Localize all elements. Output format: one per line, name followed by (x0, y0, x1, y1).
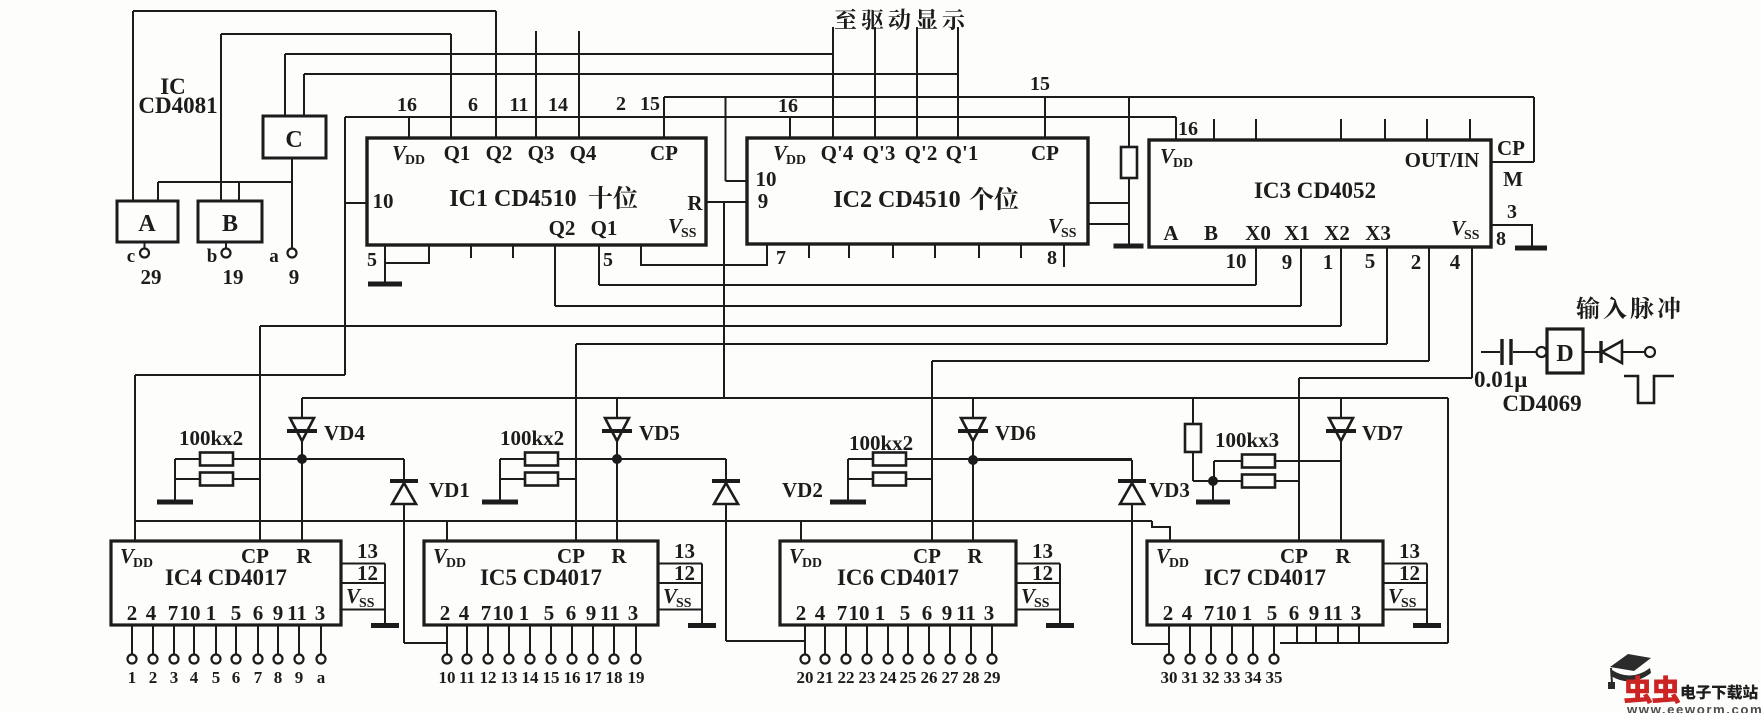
VDD rail top (345, 116, 1176, 118)
IC2 bottom ticks (808, 244, 810, 258)
svg-text:6: 6 (922, 601, 933, 625)
IC3 ground (1515, 246, 1547, 251)
svg-text:12: 12 (480, 668, 497, 687)
svg-text:33: 33 (1224, 668, 1241, 687)
wire IC6 CP to IC3 X2 (932, 360, 1429, 362)
svg-text:9: 9 (758, 189, 769, 213)
svg-text:0.01μ: 0.01μ (1474, 367, 1527, 392)
svg-text:b: b (207, 246, 218, 267)
gate B (198, 201, 262, 242)
svg-text:19: 19 (223, 265, 244, 289)
svg-text:4: 4 (190, 668, 199, 687)
svg-text:18: 18 (606, 668, 623, 687)
svg-text:6: 6 (253, 601, 264, 625)
wire Q2 tens to IC3 B (555, 305, 1301, 307)
svg-text:10: 10 (180, 601, 201, 625)
gate A (117, 201, 178, 242)
diode VD3 (973, 459, 1132, 461)
svg-text:www.eeworm.com: www.eeworm.com (1626, 702, 1761, 713)
reset rail to IC7 outputs (1447, 398, 1449, 643)
wire B output to Q1 (221, 33, 451, 35)
svg-text:2: 2 (1163, 601, 1174, 625)
IC3 VSS stub to ground (1491, 225, 1532, 247)
svg-text:CP: CP (1497, 136, 1525, 160)
svg-text:3: 3 (984, 601, 995, 625)
IC6 CD4017 box (780, 541, 1016, 625)
svg-text:5: 5 (367, 249, 377, 271)
IC3 top ticks (1213, 119, 1215, 140)
svg-text:DD: DD (802, 555, 822, 570)
svg-text:28: 28 (963, 668, 980, 687)
svg-text:R: R (967, 544, 983, 568)
svg-text:100kx2: 100kx2 (849, 431, 913, 455)
svg-text:Q4: Q4 (570, 141, 597, 165)
svg-text:25: 25 (900, 668, 917, 687)
svg-text:4: 4 (1182, 601, 1193, 625)
svg-text:14: 14 (522, 668, 540, 687)
svg-text:9: 9 (1282, 250, 1293, 274)
IC1 R pin stub to IC2 pin9 (706, 201, 746, 203)
svg-text:D: D (1556, 341, 1573, 367)
svg-text:IC5 CD4017: IC5 CD4017 (480, 565, 602, 590)
coupling capacitor 0.01u (1481, 351, 1500, 353)
svg-text:Q2: Q2 (549, 216, 576, 240)
svg-text:3: 3 (1351, 601, 1362, 625)
svg-text:27: 27 (942, 668, 960, 687)
IC2 Q2' pin to display (916, 27, 918, 138)
resistor pair 100kx2 (200, 453, 233, 466)
svg-text:11: 11 (459, 668, 475, 687)
IC7 output terminals (1168, 625, 1170, 654)
svg-text:7: 7 (481, 601, 492, 625)
svg-text:6: 6 (1289, 601, 1300, 625)
IC5 CP line (575, 344, 577, 541)
IC1 Q1 pin down (598, 245, 600, 285)
svg-text:1: 1 (1323, 250, 1334, 274)
svg-text:Q1: Q1 (444, 141, 471, 165)
svg-text:VD5: VD5 (639, 421, 680, 445)
diode at inverter output (1583, 351, 1600, 353)
IC4 ground (371, 623, 399, 628)
ground of 100kx2 group (830, 500, 866, 505)
VDD drop to IC4 row (344, 117, 346, 375)
svg-text:16: 16 (397, 94, 417, 116)
wire VD2 to IC6 pin2 (726, 640, 805, 642)
IC3 pin A hook (1255, 247, 1257, 285)
IC7 output pins to reset wire (1280, 642, 1448, 644)
svg-text:DD: DD (446, 555, 466, 570)
svg-text:12: 12 (357, 561, 378, 585)
wire A output to Q2 (133, 10, 496, 12)
IC2 pin 8 stub (1063, 244, 1065, 267)
svg-text:5: 5 (603, 249, 613, 271)
svg-text:Q'2: Q'2 (905, 141, 938, 165)
svg-text:VD2: VD2 (782, 478, 823, 502)
IC5 VDD stub (446, 521, 448, 541)
svg-text:29: 29 (141, 265, 162, 289)
diode VD4 (301, 398, 303, 418)
eeworm logo text (1624, 675, 1680, 704)
resistor triple 100kx3 (1192, 398, 1194, 424)
IC4 output terminals (131, 625, 133, 654)
svg-text:11: 11 (510, 94, 529, 116)
svg-text:11: 11 (287, 601, 307, 625)
svg-text:OUT/IN: OUT/IN (1405, 148, 1480, 172)
IC1 ground (368, 282, 402, 287)
svg-text:DD: DD (1173, 155, 1193, 170)
IC2 VDD pin 16 (789, 117, 791, 138)
svg-text:7: 7 (837, 601, 848, 625)
svg-text:1: 1 (875, 601, 886, 625)
svg-text:IC4 CD4017: IC4 CD4017 (165, 565, 287, 590)
IC1 bottom ticks (470, 245, 472, 258)
svg-text:13: 13 (674, 539, 695, 563)
svg-text:15: 15 (1030, 73, 1050, 95)
svg-text:R: R (611, 544, 627, 568)
svg-text:5: 5 (1267, 601, 1278, 625)
diode VD5 (616, 398, 618, 418)
svg-text:6: 6 (566, 601, 577, 625)
svg-text:9: 9 (289, 265, 300, 289)
svg-text:10: 10 (1226, 249, 1247, 273)
IC3 pin X3 hook (1471, 247, 1473, 378)
svg-text:12: 12 (674, 561, 695, 585)
CP rail from IC1/IC2 to IC3 (664, 96, 1534, 98)
svg-text:IC2 CD4510: IC2 CD4510 (833, 187, 960, 213)
IC2 right stub R (1088, 202, 1129, 204)
svg-text:a: a (317, 668, 326, 687)
node R6 (968, 455, 978, 465)
svg-text:7: 7 (254, 668, 263, 687)
svg-text:5: 5 (544, 601, 555, 625)
svg-text:7: 7 (1204, 601, 1215, 625)
IC1 pin hook to ground (385, 245, 429, 263)
IC3 pin B hook (1300, 247, 1302, 306)
svg-text:16: 16 (1178, 118, 1198, 140)
svg-text:X0: X0 (1245, 221, 1271, 245)
svg-text:SS: SS (1464, 227, 1480, 242)
svg-text:24: 24 (880, 668, 898, 687)
svg-text:1: 1 (206, 601, 217, 625)
svg-text:CD4069: CD4069 (1502, 391, 1581, 416)
svg-text:Q'4: Q'4 (821, 141, 854, 165)
svg-text:SS: SS (1061, 225, 1077, 240)
svg-text:8: 8 (1047, 247, 1057, 269)
svg-text:8: 8 (1496, 228, 1506, 250)
svg-text:2: 2 (149, 668, 158, 687)
IC2 ground (1114, 244, 1144, 249)
svg-text:CP: CP (1031, 141, 1059, 165)
node R4 (297, 454, 307, 464)
svg-text:Q'3: Q'3 (863, 141, 896, 165)
svg-text:10: 10 (1216, 601, 1237, 625)
svg-text:Q'1: Q'1 (946, 141, 979, 165)
svg-text:14: 14 (548, 94, 568, 116)
ground of 100kx2 group (157, 500, 193, 505)
IC5 CD4017 box (424, 541, 658, 625)
svg-text:A: A (138, 211, 156, 237)
svg-text:1: 1 (128, 668, 137, 687)
svg-text:9: 9 (1309, 601, 1320, 625)
IC6 output terminals (804, 625, 806, 654)
svg-text:13: 13 (501, 668, 518, 687)
svg-text:34: 34 (1245, 668, 1263, 687)
svg-text:X3: X3 (1365, 221, 1391, 245)
IC6 VDD stub (800, 521, 802, 541)
terminal b (225, 242, 227, 249)
IC3 CD4052 box (1149, 140, 1491, 247)
svg-text:SS: SS (359, 595, 375, 610)
svg-text:IC6 CD4017: IC6 CD4017 (837, 565, 959, 590)
svg-text:CD4081: CD4081 (138, 93, 217, 118)
IC5 pin 13/12/VSS ladder (658, 563, 702, 565)
IC1 pin Q3 (535, 31, 537, 138)
IC6 ground (1046, 623, 1074, 628)
svg-text:5: 5 (231, 601, 242, 625)
svg-text:IC7 CD4017: IC7 CD4017 (1204, 565, 1326, 590)
eeworm logo cap (1610, 654, 1651, 671)
terminal a (288, 249, 297, 258)
svg-text:4: 4 (815, 601, 826, 625)
svg-text:23: 23 (859, 668, 876, 687)
svg-text:13: 13 (1032, 539, 1053, 563)
svg-text:SS: SS (681, 225, 697, 240)
svg-text:15: 15 (543, 668, 560, 687)
svg-text:19: 19 (628, 668, 645, 687)
diode VD7 (1340, 398, 1342, 418)
svg-text:32: 32 (1203, 668, 1220, 687)
svg-text:2: 2 (1411, 250, 1422, 274)
svg-text:9: 9 (942, 601, 953, 625)
ground of 100kx2 group (482, 500, 518, 505)
svg-text:X2: X2 (1324, 221, 1350, 245)
svg-text:9: 9 (586, 601, 597, 625)
svg-text:11: 11 (956, 601, 976, 625)
svg-text:12: 12 (1399, 561, 1420, 585)
IC3 pin X0 hook (1340, 247, 1342, 326)
wire IC5 CP to IC3 X1 (576, 343, 1387, 345)
ground of 100kx3 group (1212, 481, 1214, 500)
svg-text:8: 8 (274, 668, 283, 687)
svg-text:2: 2 (440, 601, 451, 625)
svg-text:VD1: VD1 (429, 478, 470, 502)
svg-text:3: 3 (170, 668, 179, 687)
svg-text:VD3: VD3 (1149, 478, 1190, 502)
svg-text:100kx2: 100kx2 (500, 426, 564, 450)
wire A/B inputs from node below C (158, 181, 292, 183)
svg-text:5: 5 (212, 668, 221, 687)
IC4 CP line (259, 326, 261, 541)
svg-text:4: 4 (146, 601, 157, 625)
svg-text:VD4: VD4 (324, 421, 365, 445)
to display label (835, 8, 964, 30)
pulse waveform symbol (1624, 376, 1674, 403)
input terminal (1645, 347, 1655, 357)
IC7 CD4017 box (1147, 541, 1383, 625)
svg-text:2: 2 (616, 93, 626, 115)
svg-text:IC3 CD4052: IC3 CD4052 (1254, 178, 1376, 203)
svg-text:2: 2 (127, 601, 138, 625)
svg-text:13: 13 (357, 539, 378, 563)
svg-text:9: 9 (273, 601, 284, 625)
svg-text:B: B (222, 211, 238, 237)
svg-text:DD: DD (133, 555, 153, 570)
wire C input2 to Q1' of IC2 (304, 73, 958, 75)
svg-text:IC1 CD4510: IC1 CD4510 (449, 186, 576, 212)
wire IC7 CP to IC3 X3 (1299, 377, 1472, 379)
svg-text:10: 10 (373, 189, 394, 213)
IC7 pin 13/12/VSS ladder (1383, 563, 1427, 565)
terminal c (144, 242, 146, 249)
svg-text:4: 4 (1450, 250, 1461, 274)
inverter D CD4069 (1537, 347, 1547, 357)
svg-text:4: 4 (459, 601, 470, 625)
VDD rail above counter ICs (135, 520, 1152, 522)
svg-text:16: 16 (564, 668, 581, 687)
svg-text:17: 17 (585, 668, 603, 687)
svg-text:10: 10 (439, 668, 456, 687)
IC2 CP pin 15 (1044, 97, 1046, 138)
IC2 pin10 stub from CP rail (725, 97, 727, 181)
svg-text:DD: DD (786, 152, 806, 167)
wire Q1 tens to IC3 A (599, 284, 1256, 286)
svg-text:2: 2 (796, 601, 807, 625)
IC1 R drop (723, 202, 725, 398)
resistor pair 100kx2 (873, 453, 906, 466)
svg-text:Q2: Q2 (486, 141, 513, 165)
IC1 pin Q4 (578, 31, 580, 138)
svg-text:9: 9 (295, 668, 304, 687)
IC4 pin 13/12/VSS ladder (341, 563, 385, 565)
gate C (263, 116, 326, 158)
IC1 grounded pin 5 (384, 245, 386, 284)
svg-text:3: 3 (628, 601, 639, 625)
svg-text:DD: DD (1169, 555, 1189, 570)
IC1 pin 10 stub (345, 202, 367, 204)
svg-text:SS: SS (1401, 595, 1417, 610)
svg-text:35: 35 (1266, 668, 1283, 687)
svg-text:1: 1 (519, 601, 530, 625)
svg-text:16: 16 (778, 95, 798, 117)
wire IC4 CP to IC3 X0 (260, 325, 1341, 327)
VDD wire to IC4 (135, 374, 345, 376)
svg-text:DD: DD (405, 152, 425, 167)
IC2 CD4510 box (747, 138, 1088, 244)
svg-text:C: C (285, 127, 302, 153)
svg-text:SS: SS (676, 595, 692, 610)
svg-text:29: 29 (984, 668, 1001, 687)
diode VD1 (403, 459, 405, 480)
IC1 pin5 wire to IC2 pin7 (641, 244, 767, 265)
svg-text:31: 31 (1182, 668, 1199, 687)
diode VD6 (972, 398, 974, 418)
svg-text:5: 5 (900, 601, 911, 625)
svg-text:100kx3: 100kx3 (1215, 428, 1279, 452)
wire VD1 to IC5 pin2 (404, 642, 447, 644)
svg-text:R: R (687, 191, 703, 215)
svg-text:11: 11 (600, 601, 620, 625)
svg-text:20: 20 (797, 668, 814, 687)
svg-text:c: c (127, 246, 135, 267)
svg-text:B: B (1204, 221, 1218, 245)
IC2 Q1' pin to display (957, 27, 959, 138)
IC1 CD4510 box (367, 138, 706, 245)
svg-text:VD6: VD6 (995, 421, 1036, 445)
svg-text:5: 5 (1365, 249, 1376, 273)
svg-text:10: 10 (756, 167, 777, 191)
resistor pair 100kx2 (525, 453, 558, 466)
svg-text:7: 7 (776, 247, 786, 269)
svg-text:26: 26 (921, 668, 938, 687)
svg-text:7: 7 (168, 601, 179, 625)
svg-text:CP: CP (650, 141, 678, 165)
svg-text:1: 1 (1242, 601, 1253, 625)
svg-text:6: 6 (232, 668, 241, 687)
svg-text:6: 6 (468, 94, 478, 116)
IC7 CP line (1298, 378, 1300, 541)
svg-text:X1: X1 (1284, 221, 1310, 245)
svg-text:13: 13 (1399, 539, 1420, 563)
node R5 (612, 454, 622, 464)
IC3 pin X2 hook (1428, 247, 1430, 361)
svg-text:VD7: VD7 (1362, 421, 1403, 445)
IC5 output terminals (446, 625, 448, 654)
IC4 CD4017 box (111, 541, 341, 625)
svg-text:R: R (1335, 544, 1351, 568)
wire C input1 to Q4' of IC2 (285, 53, 833, 55)
svg-text:Q3: Q3 (528, 141, 555, 165)
svg-text:11: 11 (1323, 601, 1343, 625)
svg-text:R: R (296, 544, 312, 568)
svg-text:100kx2: 100kx2 (179, 426, 243, 450)
svg-text:30: 30 (1161, 668, 1178, 687)
IC1 Q2 pin down (554, 245, 556, 306)
diode VD2 (617, 458, 726, 460)
svg-text:15: 15 (640, 93, 660, 115)
reset rail from IC1 R (302, 397, 1448, 399)
svg-text:10: 10 (493, 601, 514, 625)
node R7 (1208, 476, 1218, 486)
svg-text:SS: SS (1034, 595, 1050, 610)
svg-text:10: 10 (849, 601, 870, 625)
IC2 Q3' pin to display (874, 27, 876, 138)
wire VD3 to IC7 pin2 (1132, 643, 1169, 645)
input pulse label (1576, 296, 1680, 319)
IC7 VDD feed (1152, 521, 1170, 541)
svg-text:12: 12 (1032, 561, 1053, 585)
svg-text:A: A (1163, 221, 1179, 245)
svg-text:22: 22 (838, 668, 855, 687)
IC1 CP pin 15 (663, 97, 665, 138)
IC7 ground (1413, 623, 1441, 628)
CP pulldown resistor (1128, 97, 1130, 147)
svg-text:a: a (269, 246, 279, 267)
svg-text:3: 3 (315, 601, 326, 625)
IC5 ground (688, 623, 716, 628)
IC1 VDD pin 16 (408, 117, 410, 138)
IC2 right stub VSS (1088, 223, 1129, 225)
svg-text:21: 21 (817, 668, 834, 687)
svg-text:3: 3 (1507, 201, 1517, 223)
svg-text:M: M (1503, 167, 1523, 191)
svg-text:Q1: Q1 (591, 216, 618, 240)
wire C output to terminal a (291, 158, 293, 249)
IC6 pin 13/12/VSS ladder (1016, 563, 1060, 565)
IC6 CP line (931, 361, 933, 541)
IC3 pin X1 hook (1386, 247, 1388, 344)
IC2 Q4' pin to display (832, 27, 834, 138)
